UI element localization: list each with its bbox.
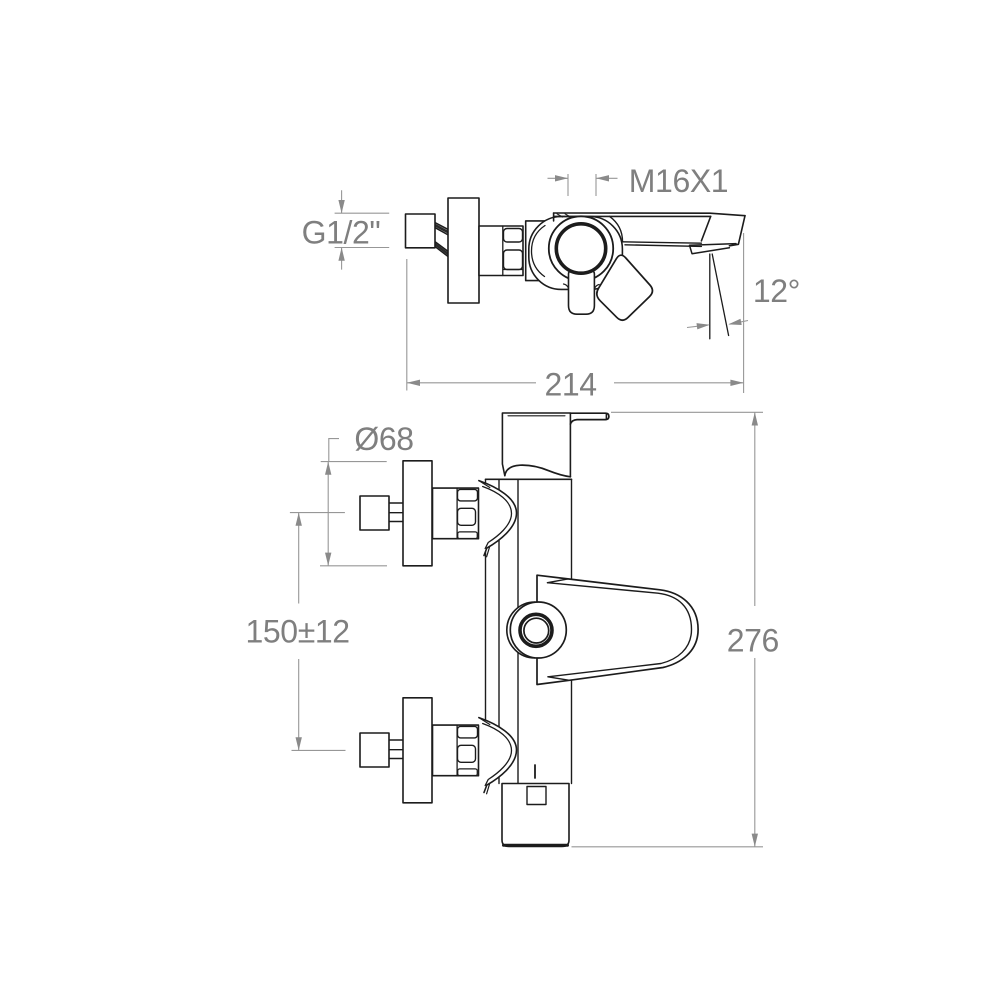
svg-text:M16X1: M16X1 [629,163,728,199]
svg-text:150±12: 150±12 [246,613,350,649]
svg-text:12°: 12° [753,273,800,309]
svg-text:214: 214 [544,367,596,403]
svg-text:G1/2": G1/2" [302,215,381,251]
svg-text:276: 276 [727,623,779,659]
svg-text:Ø68: Ø68 [354,421,413,457]
